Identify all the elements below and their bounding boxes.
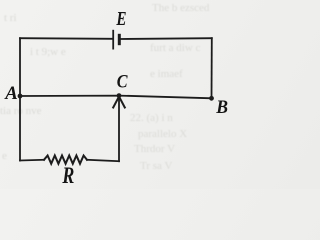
- node C junction dot: [117, 93, 122, 98]
- arrowhead (sliding tap) at node C: [113, 97, 125, 108]
- wire: battery to top-right corner: [120, 37, 212, 40]
- faint bleed-through ghost text (decorative): [152, 2, 209, 14]
- svg-text:C: C: [117, 70, 128, 92]
- svg-text:E: E: [116, 7, 127, 30]
- svg-text:A: A: [4, 83, 18, 104]
- battery E short plate: [118, 34, 121, 45]
- node B junction dot: [209, 96, 214, 101]
- wire: resistor to bottom-right corner: [87, 160, 119, 161]
- wire: top-left horizontal segment to battery: [20, 37, 113, 40]
- wire: left vertical from top-left corner down through A to bottom-left corner: [19, 38, 21, 160]
- wire: right vertical from top-right corner down to B: [211, 38, 213, 98]
- svg-text:B: B: [215, 97, 228, 118]
- resistor R1 zigzag: [44, 156, 87, 164]
- node A junction dot: [18, 94, 23, 99]
- wire: middle horizontal A to B: [20, 96, 212, 99]
- battery E long plate: [112, 30, 114, 50]
- wire: bottom-left corner to resistor: [20, 159, 44, 162]
- wire: arrow shaft from bottom-right corner up to C: [118, 99, 120, 161]
- svg-text:R: R: [62, 164, 75, 189]
